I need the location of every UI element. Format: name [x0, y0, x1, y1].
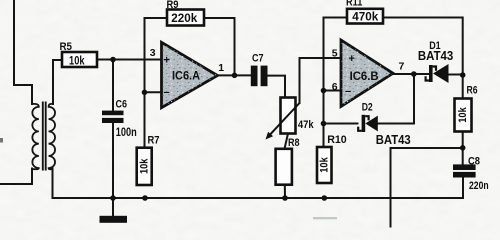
wire: pot wiper to IC6.B pin5 — [300, 58, 342, 103]
wire: C7 to pot top — [268, 76, 286, 97]
svg-text:R5: R5 — [60, 41, 73, 53]
svg-text:IC6.B: IC6.B — [350, 69, 379, 83]
svg-text:+: + — [349, 53, 355, 65]
svg-text:3: 3 — [150, 47, 156, 59]
svg-text:R11: R11 — [346, 0, 362, 8]
svg-text:6: 6 — [332, 81, 338, 93]
wire: minus input IC6.A — [145, 91, 162, 93]
junction minus IC6.B dot — [321, 88, 327, 94]
capacitor C6 — [102, 111, 124, 123]
junction minus IC6.A dot — [142, 90, 148, 96]
wire: secondary bottom to rail — [52, 169, 54, 199]
svg-text:IC6.A: IC6.A — [172, 68, 200, 82]
svg-text:R7: R7 — [148, 135, 160, 147]
wire: R9 right down to output — [204, 18, 235, 75]
wire: R6 bottom through node to C8 — [462, 132, 464, 165]
svg-text:5: 5 — [332, 48, 338, 60]
junction R8 rail dot — [282, 195, 288, 201]
svg-text:7: 7 — [399, 61, 405, 73]
svg-text:–: – — [164, 87, 170, 99]
svg-text:R6: R6 — [467, 85, 478, 97]
svg-text:+: + — [164, 55, 170, 67]
resistor R6 — [455, 99, 472, 132]
junction D1/R6/R11 dot — [460, 72, 466, 78]
svg-text:R10: R10 — [327, 134, 347, 146]
transformer TR core — [43, 102, 46, 171]
wire: R8 bottom to rail — [284, 185, 286, 198]
svg-text:–: – — [345, 86, 351, 98]
wire: IC6.A output to C7 — [218, 74, 251, 76]
wire: D1 anode to node — [449, 74, 463, 76]
svg-text:100n: 100n — [116, 127, 137, 139]
wire: primary bottom lead — [0, 169, 32, 185]
wire: output branch down off-frame — [390, 148, 392, 227]
svg-text:10k: 10k — [318, 157, 330, 173]
wire: to R9 left — [145, 17, 168, 19]
wire: secondary top to R5 — [53, 60, 62, 104]
wire: node A to IC6.A pin3 — [113, 59, 162, 61]
wire: D2 right lead up to output — [378, 74, 414, 124]
transformer secondary winding — [49, 104, 55, 169]
scan dash artifact — [313, 217, 337, 219]
wire: R5 to node A — [97, 59, 113, 61]
wire: primary top lead — [14, 0, 32, 104]
wire: node down to R6 — [462, 75, 464, 99]
diode D2 BAT43 — [358, 115, 378, 132]
op-amp U2 IC6.B — [341, 40, 393, 107]
wire: D2 left lead — [324, 123, 358, 125]
junction IC6.A output dot — [232, 73, 238, 79]
wire: pot bottom to R8 — [285, 134, 289, 149]
svg-text:470k: 470k — [352, 11, 379, 23]
svg-text:10k: 10k — [138, 158, 150, 174]
junction R7 rail dot — [142, 195, 148, 201]
potentiometer P1 47k — [281, 98, 296, 134]
ground — [100, 216, 128, 223]
svg-text:D2: D2 — [362, 101, 373, 113]
wire: C8 bottom to rail — [462, 178, 464, 199]
svg-text:47k: 47k — [298, 119, 315, 131]
pot wiper arrow — [270, 103, 299, 134]
diode D1 BAT43 — [426, 64, 449, 83]
resistor R7 — [137, 148, 152, 185]
resistor R5 — [62, 52, 97, 67]
wire: R11 right lead down — [383, 18, 463, 76]
wire: minus input IC6.B — [324, 90, 342, 92]
resistor R11 — [347, 9, 383, 24]
svg-text:R8: R8 — [288, 137, 300, 149]
resistor R10 — [317, 147, 332, 183]
capacitor C8 — [453, 164, 476, 177]
junction IC6.B output dot — [411, 71, 417, 77]
svg-text:220k: 220k — [171, 13, 198, 25]
wire: output branch horizontal — [391, 147, 463, 149]
svg-text:BAT43: BAT43 — [376, 133, 411, 147]
scan speck — [0, 138, 3, 143]
resistor R8 — [276, 149, 292, 185]
transformer primary winding — [32, 104, 39, 169]
svg-text:R9: R9 — [167, 0, 179, 11]
svg-text:10k: 10k — [457, 107, 469, 123]
wire: C6 bottom to rail — [112, 123, 114, 198]
svg-text:BAT43: BAT43 — [418, 49, 453, 63]
svg-text:220n: 220n — [469, 180, 489, 192]
op-amp U1 IC6.A — [162, 42, 218, 107]
junction R10 rail dot — [322, 195, 328, 201]
svg-text:C8: C8 — [468, 155, 480, 167]
capacitor C7 — [251, 66, 268, 87]
junction D2 branch dot — [321, 121, 327, 127]
svg-text:C7: C7 — [252, 52, 264, 64]
junction C6/ground rail dot — [110, 195, 116, 201]
wire: minus net vertical R11/R10 — [323, 18, 325, 148]
svg-text:1: 1 — [218, 62, 224, 74]
wire: ground rail — [53, 197, 464, 199]
wire: feedback vertical R9/R7 — [144, 18, 146, 148]
wire: IC6.B output to D1 — [393, 73, 429, 75]
junction node A dot — [110, 57, 116, 63]
junction R6/C8 output dot — [460, 145, 466, 151]
wire: node A down to C6 — [112, 60, 114, 111]
resistor R9 — [167, 10, 204, 26]
svg-text:C6: C6 — [116, 99, 128, 111]
svg-text:10k: 10k — [69, 55, 85, 67]
wire: ground stub — [112, 198, 114, 216]
wire: R11 left lead — [324, 17, 348, 19]
